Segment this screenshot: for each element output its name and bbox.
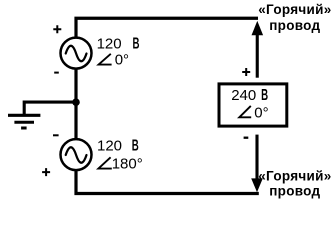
label: «Горячий» провод (bottom) [258,168,331,198]
arrow: lower hot terminal pointer (down) [251,135,263,193]
svg-text:0°: 0° [115,52,129,69]
svg-text:120: 120 [97,35,122,52]
svg-text:провод: провод [269,18,320,33]
node: neutral junction dot [72,98,80,106]
svg-text:120: 120 [97,138,122,155]
polarity - of V2 [53,134,59,136]
label V1 angle ∠0° [99,52,129,69]
label 240 В [231,87,268,104]
svg-text:0°: 0° [254,104,268,121]
svg-text:180°: 180° [112,156,143,173]
svg-text:«Горячий»: «Горячий» [258,2,331,17]
source V1 (AC source circle) [61,38,92,69]
polarity + of V1 [53,25,61,33]
svg-text:В: В [133,35,140,52]
label V2 angle ∠180° [98,156,142,173]
wire: neutral junction to ground [24,102,76,114]
arrow: upper hot terminal pointer (up) [252,21,264,78]
svg-text:В: В [261,87,268,104]
polarity + of V2 [42,168,50,176]
polarity + at 240V top [242,68,250,76]
polarity - at 240V bottom [244,137,249,139]
label 240V angle ∠0° [239,104,268,121]
label: «Горячий» провод (top) [258,2,331,33]
svg-text:провод: провод [269,183,320,198]
svg-text:«Горячий»: «Горячий» [258,168,331,183]
svg-text:В: В [132,138,139,155]
wire: V1 bottom to V2 top through neutral junction [74,69,77,141]
polarity - of V1 [54,72,59,74]
source V2 (AC source circle) [61,139,92,170]
wire: bottom conductor from V2 to lower hot terminal [76,170,259,194]
voltmeter box 240 В [219,84,287,126]
label V1 value 120 В [97,35,140,52]
wire: top conductor from source V1 to upper hot terminal [76,18,258,37]
label V2 value 120 В [97,138,139,155]
ground symbol [8,115,40,128]
svg-text:240: 240 [231,87,256,104]
